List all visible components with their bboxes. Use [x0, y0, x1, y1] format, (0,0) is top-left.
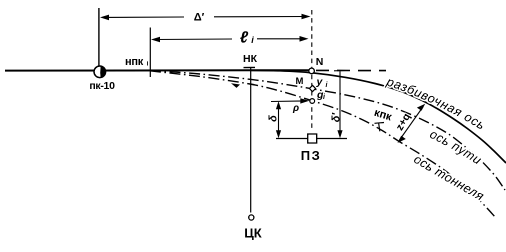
svg-text:пк-10: пк-10	[89, 80, 115, 92]
wire pk-10 vertical mast	[98, 8, 100, 66]
wire PZ base line	[276, 138, 347, 140]
node pk-10 circle symbol	[94, 66, 106, 78]
svg-text:Δ′: Δ′	[194, 12, 205, 24]
node NK tick on axis	[244, 66, 256, 68]
svg-text:M: M	[296, 76, 304, 87]
label razbivochnaya os	[386, 85, 501, 142]
wire offset line from P to left	[271, 98, 309, 103]
curve os tonnelya (tunnel axis, dash-dot)	[150, 71, 496, 218]
label os puti	[429, 137, 486, 170]
curve razbivochnaya os (layout axis, solid)	[250, 70, 506, 163]
wire main tangent axis	[5, 69, 312, 71]
dimension line Delta-prime	[100, 14, 311, 20]
svg-text:N: N	[316, 56, 324, 68]
node M point diamond	[309, 85, 315, 91]
node N point circle	[309, 68, 315, 74]
svg-text:нпк: нпк	[125, 56, 144, 68]
node P point circle	[310, 99, 315, 104]
svg-text:δ′: δ′	[331, 111, 343, 122]
node PZ square marker	[308, 134, 317, 143]
dimension delta left	[276, 101, 281, 138]
svg-text:i: i	[147, 61, 149, 68]
wire npk extension line	[149, 28, 151, 78]
svg-text:ℓ: ℓ	[240, 30, 249, 47]
label os tonnelya	[413, 162, 490, 207]
dimension z+q between layout and tunnel axes	[398, 104, 426, 143]
svg-text:i: i	[251, 35, 254, 45]
wire tangent continuation dashed	[316, 69, 386, 71]
wire vertical dashed line through N M P PZ	[311, 10, 313, 132]
svg-text:НК: НК	[243, 53, 258, 65]
arrowhead on os puti direction	[231, 83, 240, 88]
svg-text:у: у	[316, 76, 324, 88]
dimension line l-i	[151, 36, 309, 42]
curve os puti (track axis, dash-dot)	[150, 70, 505, 190]
svg-text:δ: δ	[268, 115, 280, 122]
dimension delta-prime right	[334, 71, 346, 139]
svg-text:ρ: ρ	[292, 103, 299, 114]
svg-text:ЦК: ЦК	[244, 226, 261, 241]
node kpk T-tick on tunnel axis	[375, 123, 385, 132]
node CK circle	[249, 215, 254, 220]
svg-text:ось пути: ось пути	[428, 127, 485, 167]
svg-text:i: i	[326, 82, 329, 89]
svg-text:кпк: кпк	[373, 107, 394, 124]
wire CK vertical line	[250, 68, 252, 213]
svg-text:ПЗ: ПЗ	[301, 148, 322, 163]
svg-text:i: i	[323, 94, 326, 101]
